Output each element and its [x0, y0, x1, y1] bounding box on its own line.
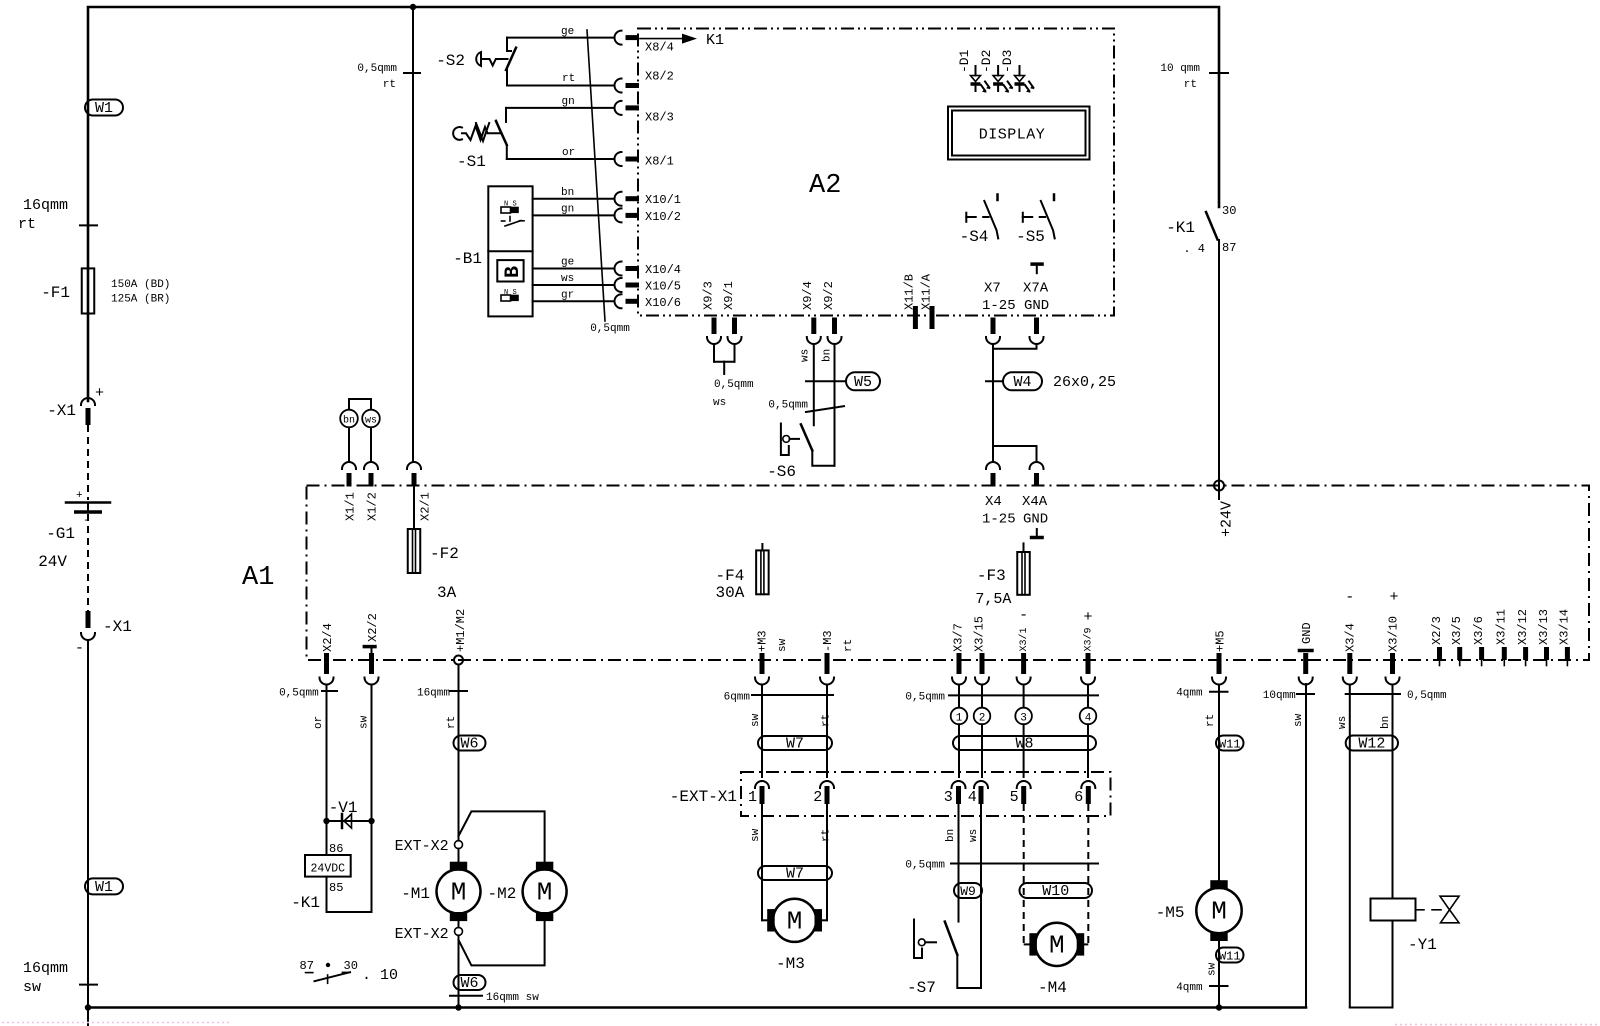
connector X10/6: [615, 294, 622, 308]
svg-text:-M2: -M2: [488, 885, 517, 903]
svg-text:gn: gn: [561, 204, 574, 216]
svg-text:rt: rt: [1184, 79, 1197, 91]
svg-text:W8: W8: [1015, 736, 1033, 753]
EXT-X1 pin 2: [820, 781, 834, 788]
wire gn B1-X10/2: [533, 214, 615, 216]
wire bn X3/10 drop: [1392, 685, 1394, 899]
cable W4 marker 26x0,25: [986, 380, 1003, 382]
connector X2/2: [363, 645, 377, 649]
svg-text:W7: W7: [786, 866, 804, 883]
svg-text:-D3: -D3: [1000, 50, 1015, 73]
wire gr B1-X10/6: [533, 300, 615, 302]
svg-text:X10/2: X10/2: [645, 210, 681, 224]
svg-text:-S5: -S5: [1016, 228, 1045, 246]
connector X7 pins: [991, 318, 996, 335]
svg-text:1: 1: [956, 713, 963, 725]
cable W5 marker: [806, 380, 846, 382]
svg-text:W5: W5: [854, 374, 872, 391]
wire ws (pin4 down): [980, 804, 982, 988]
cable W11 (lower): [1216, 948, 1244, 963]
connector X11/A pin: [930, 306, 935, 329]
wire or S1-X8/1: [507, 158, 615, 160]
wire K1 to +24V node: [1218, 240, 1220, 499]
connector X1/1: [342, 462, 356, 469]
connector X9/3: [712, 318, 717, 335]
cable W7 (upper): [758, 736, 832, 750]
wire X3/9 drop: [1087, 685, 1089, 709]
svg-text:-: -: [1345, 589, 1354, 606]
wire ws X9/4: [813, 344, 815, 425]
connector X3/14 pin: [1565, 647, 1570, 660]
fuse F4 30A: [761, 544, 763, 550]
connector X8/3: [615, 101, 622, 115]
svg-text:24VDC: 24VDC: [311, 863, 346, 876]
wire bn X9/2: [834, 344, 836, 466]
fuse F1: [82, 268, 95, 313]
svg-text:7,5A: 7,5A: [975, 591, 1011, 608]
svg-text:gr: gr: [561, 290, 574, 302]
svg-text:-X1: -X1: [103, 618, 132, 636]
svg-text:bn: bn: [1380, 716, 1392, 729]
svg-text:-D1: -D1: [957, 49, 972, 73]
wire ws X3/4 drop: [1349, 685, 1351, 1008]
svg-text:X3/9: X3/9: [1082, 627, 1094, 651]
svg-text:A2: A2: [809, 171, 841, 201]
svg-text:X4A: X4A: [1022, 494, 1048, 510]
svg-text:16qmm: 16qmm: [417, 688, 450, 700]
svg-text:sw: sw: [1207, 962, 1219, 976]
svg-text:X11/A: X11/A: [919, 273, 933, 310]
svg-text:X2/1: X2/1: [418, 492, 432, 521]
switch S6: [781, 424, 789, 456]
core mark 3: [1015, 708, 1032, 725]
svg-text:+: +: [76, 490, 83, 502]
svg-text:W6: W6: [460, 736, 478, 753]
svg-text:6qmm: 6qmm: [724, 692, 751, 704]
svg-text:X3/5: X3/5: [1450, 616, 1464, 645]
wire X3/1 drop: [1023, 685, 1025, 709]
svg-text:rt: rt: [843, 639, 855, 652]
core mark 1: [951, 708, 968, 725]
svg-text:-F3: -F3: [977, 567, 1006, 585]
svg-text:X10/6: X10/6: [645, 296, 681, 310]
connector X3/12 pin: [1523, 647, 1528, 660]
svg-text:4: 4: [1085, 713, 1092, 725]
svg-text:-S4: -S4: [960, 228, 989, 246]
svg-text:rt: rt: [446, 716, 458, 729]
svg-text:X10/5: X10/5: [645, 280, 681, 294]
svg-text:A1: A1: [242, 563, 274, 593]
svg-text:-Y1: -Y1: [1408, 936, 1437, 954]
solenoid Y1: [1371, 899, 1416, 921]
wire X4/X4A split: [993, 446, 1037, 462]
svg-text:-F2: -F2: [430, 545, 459, 563]
arrow K1 output: [640, 38, 688, 40]
svg-text:X3/15: X3/15: [972, 616, 986, 652]
svg-text:gn: gn: [562, 96, 575, 108]
EXT-X1 pin 1: [755, 781, 769, 788]
svg-text:sw: sw: [750, 713, 762, 727]
fuse F2 3A: [413, 487, 415, 530]
svg-text:24V: 24V: [38, 553, 67, 571]
svg-text:X2/3: X2/3: [1430, 616, 1444, 645]
svg-text:85: 85: [329, 881, 343, 895]
svg-text:1-25: 1-25: [982, 298, 1016, 314]
connector X3/13 pin: [1544, 647, 1549, 660]
svg-text:bn: bn: [343, 415, 355, 427]
svg-text:ws: ws: [365, 416, 377, 427]
wire M5 to bus: [1218, 939, 1220, 1008]
svg-text:. 10: . 10: [362, 967, 398, 984]
svg-text:4qmm: 4qmm: [1176, 982, 1203, 994]
svg-text:X2/2: X2/2: [366, 613, 380, 642]
svg-text:. 4: . 4: [1183, 242, 1205, 256]
connector X9/2: [832, 318, 837, 335]
wire dashed (pin6 down): [1087, 804, 1089, 944]
wire bottom ground bus: [88, 1006, 1306, 1009]
svg-text:X8/1: X8/1: [645, 155, 674, 169]
svg-text:3: 3: [1020, 713, 1027, 725]
svg-text:30: 30: [1222, 204, 1236, 218]
wire S2/X2-1 drop: [412, 7, 414, 462]
svg-text:W10: W10: [1042, 883, 1069, 900]
svg-text:5: 5: [1010, 789, 1019, 806]
svg-text:bn: bn: [561, 187, 574, 199]
svg-text:3A: 3A: [437, 584, 457, 602]
cable W8: [953, 736, 1096, 750]
svg-text:M: M: [787, 906, 803, 936]
svg-text:10 qmm: 10 qmm: [1160, 63, 1200, 75]
wire label 16qmm sw: [450, 995, 482, 997]
connector X3/15: [980, 653, 985, 674]
paper artifact dots: [2, 1022, 230, 1024]
ground X4A GND symbol: [1036, 529, 1038, 537]
svg-text:0,5qmm: 0,5qmm: [1407, 690, 1447, 702]
svg-text:0,5qmm: 0,5qmm: [279, 688, 319, 700]
display module: [948, 107, 1090, 160]
connector X3/1 (-): [1021, 653, 1026, 674]
wire sw X2/2 drop: [371, 685, 373, 913]
svg-text:16qmm: 16qmm: [23, 197, 68, 214]
svg-text:4: 4: [968, 789, 977, 806]
svg-text:ws: ws: [800, 349, 812, 362]
svg-text:X1/2: X1/2: [365, 492, 379, 521]
svg-text:W4: W4: [1013, 374, 1031, 391]
wire gn S1-X8/3: [506, 107, 615, 109]
svg-text:X8/4: X8/4: [645, 41, 674, 55]
svg-text:X7A: X7A: [1023, 281, 1049, 297]
svg-text:W1: W1: [95, 100, 113, 117]
wire bn/ws jumper to X1: [348, 427, 350, 462]
svg-text:X3/1: X3/1: [1018, 627, 1030, 651]
svg-text:W6: W6: [460, 975, 478, 992]
svg-text:-G1: -G1: [46, 525, 75, 543]
svg-text:X3/14: X3/14: [1558, 609, 1572, 645]
wire dashed to battery: [87, 425, 89, 500]
connector X10/2: [615, 208, 622, 222]
wire K1 coil bottom: [327, 877, 372, 912]
connector X8/4: [615, 31, 622, 45]
EXT-X1 pin 5: [1017, 781, 1031, 788]
connector X7A pins: [1034, 318, 1039, 335]
core mark 2: [974, 708, 991, 725]
wire ge B1-X10/4: [533, 268, 615, 270]
wire branch to M2 (lower): [459, 921, 545, 965]
wire rt S2-X8/2: [507, 85, 615, 87]
svg-text:-: -: [75, 640, 84, 657]
wire branch to M2 (upper): [459, 811, 545, 861]
svg-text:-B1: -B1: [453, 250, 482, 268]
svg-text:W12: W12: [1358, 736, 1385, 753]
svg-text:EXT-X2: EXT-X2: [395, 926, 449, 943]
connector X3/5 pin: [1457, 647, 1462, 660]
svg-text:ge: ge: [561, 26, 574, 38]
svg-text:-M4: -M4: [1038, 979, 1067, 997]
cable tick 0,5qmm (Y1): [1346, 693, 1400, 695]
connector X10/1: [615, 192, 622, 206]
svg-text:EXT-X2: EXT-X2: [395, 838, 449, 855]
wire dashed (pin5 down): [1023, 804, 1025, 944]
svg-text:-S1: -S1: [457, 153, 486, 171]
cable W10: [1020, 883, 1093, 898]
wire M1 to ground bus: [458, 935, 460, 1007]
wire sw M3 (below EXT-X1): [761, 804, 763, 920]
svg-text:+24V: +24V: [1218, 501, 1235, 537]
wire dashed battery minus: [87, 514, 89, 611]
svg-text:M: M: [1211, 897, 1227, 927]
svg-text:X3/7: X3/7: [951, 623, 965, 652]
connector X2/3 pin: [1437, 647, 1442, 660]
core mark 4: [1080, 708, 1097, 725]
wire Y1 to bottom loop: [1350, 921, 1393, 1008]
svg-text:W1: W1: [95, 879, 113, 896]
connector X8/2: [615, 79, 622, 93]
svg-text:16qmm: 16qmm: [23, 960, 68, 977]
svg-text:1-25: 1-25: [982, 512, 1016, 528]
svg-text:or: or: [562, 147, 575, 159]
svg-text:sw: sw: [359, 715, 371, 729]
cable line 0,5qmm (slanted): [587, 30, 605, 321]
connector X8/1: [615, 152, 622, 166]
svg-text:rt: rt: [383, 79, 396, 91]
svg-text:125A (BR): 125A (BR): [111, 294, 170, 306]
wire rt M3 (below EXT-X1): [826, 804, 828, 920]
svg-text:30: 30: [344, 959, 358, 973]
terminal X7A symbol: [1030, 262, 1043, 266]
svg-text:ws: ws: [1337, 716, 1349, 729]
svg-text:GND: GND: [1023, 512, 1048, 528]
svg-text:+M1/M2: +M1/M2: [454, 609, 468, 652]
connector X9/4: [811, 318, 816, 335]
svg-text:B: B: [502, 266, 525, 278]
node bottom bus left: [85, 1004, 91, 1010]
connector X4A: [1030, 462, 1044, 469]
svg-text:or: or: [313, 716, 325, 729]
node +M1/M2 on A1 edge: [454, 656, 463, 665]
terminal strip EXT-X1 box: [741, 772, 1111, 816]
svg-text:X1/1: X1/1: [343, 492, 357, 521]
node M5 ground: [1216, 1004, 1222, 1010]
svg-text:W11: W11: [1219, 738, 1241, 752]
svg-text:+M3: +M3: [756, 630, 770, 652]
svg-text:0,5qmm: 0,5qmm: [768, 400, 808, 412]
cable W7 (lower): [758, 866, 832, 880]
connector X3/7: [957, 653, 962, 674]
controller A2 box: [638, 29, 1114, 316]
connector X3/4 (-): [1347, 653, 1352, 674]
connector X4: [986, 462, 1000, 469]
B1 buzzer symbol: [497, 260, 523, 281]
connector X3/9 (+): [1086, 653, 1091, 674]
svg-text:X8/2: X8/2: [645, 70, 674, 84]
node +24V at A1 edge: [1214, 481, 1224, 491]
svg-text:-D2: -D2: [979, 50, 994, 73]
connector +M3: [760, 653, 765, 674]
connector X2/4: [324, 653, 329, 674]
switch -S5: [1022, 213, 1024, 222]
svg-text:2: 2: [813, 789, 822, 806]
svg-text:-M3: -M3: [776, 955, 805, 973]
cable W12: [1346, 736, 1398, 751]
svg-text:0,5qmm: 0,5qmm: [905, 692, 945, 704]
svg-text:2: 2: [979, 713, 986, 725]
svg-text:3: 3: [944, 789, 953, 806]
svg-text:M: M: [1049, 930, 1065, 960]
connector X1/2: [364, 462, 378, 469]
connector X3/11 pin: [1502, 647, 1507, 660]
svg-text:X7: X7: [984, 281, 1001, 297]
svg-text:rt: rt: [820, 714, 832, 727]
svg-text:X3/6: X3/6: [1472, 616, 1486, 645]
svg-text:+: +: [1389, 589, 1398, 606]
connector -M3: [825, 653, 830, 674]
switch -S4: [965, 213, 967, 222]
svg-text:-M5: -M5: [1156, 904, 1185, 922]
svg-text:W9: W9: [960, 884, 976, 899]
fuse F3 7,5A: [1023, 543, 1025, 552]
wire left ground rail: [87, 640, 89, 1026]
svg-text:0,5qmm: 0,5qmm: [905, 860, 945, 872]
svg-text:ws: ws: [561, 273, 574, 285]
svg-text:sw: sw: [777, 638, 789, 652]
motor M3: [762, 919, 767, 921]
LED diode symbol: [975, 66, 977, 76]
svg-text:-F1: -F1: [41, 284, 70, 302]
svg-text:DISPLAY: DISPLAY: [979, 127, 1046, 144]
connector X11/B pin: [913, 306, 918, 329]
wire bn B1-X10/1: [533, 198, 615, 200]
svg-text:X4: X4: [985, 494, 1002, 510]
EXT-X1 pin 4: [974, 781, 988, 788]
svg-text:-K1: -K1: [1166, 219, 1195, 237]
svg-text:-S6: -S6: [767, 463, 796, 481]
svg-text:26x0,25: 26x0,25: [1053, 374, 1116, 391]
svg-text:GND: GND: [1024, 298, 1049, 314]
wire top +24V bus: [88, 7, 1219, 401]
wire ge S2-X8/4: [507, 37, 615, 39]
connector GND: [1298, 649, 1314, 653]
svg-text:sw: sw: [750, 828, 762, 842]
cable W9: [954, 883, 982, 898]
svg-text:87: 87: [300, 959, 314, 973]
svg-text:-S2: -S2: [436, 52, 465, 70]
wire X7 drop: [993, 344, 1037, 349]
B1 reed contact symbol: [502, 220, 505, 222]
cable W6 (bottom): [454, 975, 486, 990]
svg-text:86: 86: [329, 842, 343, 856]
node M1 ground: [455, 1004, 461, 1010]
svg-text:30A: 30A: [715, 584, 744, 602]
EXT-X1 pin 6: [1081, 781, 1095, 788]
svg-text:X9/1: X9/1: [722, 281, 736, 310]
svg-text:0,5qmm: 0,5qmm: [357, 63, 397, 75]
svg-text:rt: rt: [1205, 714, 1217, 727]
sensor B1 box: [488, 186, 532, 316]
svg-text:rt: rt: [18, 216, 36, 233]
svg-text:0,5qmm: 0,5qmm: [714, 379, 754, 391]
cable W11 (upper): [1216, 736, 1244, 751]
svg-text:6: 6: [1074, 789, 1083, 806]
connector +M5: [1217, 653, 1222, 674]
svg-text:sw: sw: [1293, 713, 1305, 727]
svg-text:X9/4: X9/4: [801, 281, 815, 310]
svg-text:-S7: -S7: [907, 979, 936, 997]
connector X1 (+) top: [81, 398, 95, 405]
svg-text:GND: GND: [1300, 622, 1314, 644]
svg-text:150A (BD): 150A (BD): [111, 279, 170, 291]
wire tag bn circle: [340, 410, 358, 428]
battery G1 24V: [66, 501, 110, 504]
svg-text:1: 1: [748, 789, 757, 806]
connector X3/10 (+): [1390, 653, 1395, 674]
connector X10/5: [615, 278, 622, 292]
wire rt -M3 drop: [826, 685, 828, 778]
cable W6 (top): [454, 736, 486, 751]
svg-text:-F4: -F4: [715, 567, 744, 585]
svg-text:ws: ws: [968, 829, 980, 842]
wire X3/7 drop: [958, 685, 960, 709]
svg-text:X9/3: X9/3: [701, 281, 715, 310]
svg-text:+: +: [1083, 609, 1092, 626]
svg-text:4qmm: 4qmm: [1176, 688, 1203, 700]
LED diode symbol: [1019, 66, 1021, 76]
svg-text:X3/10: X3/10: [1386, 616, 1400, 652]
svg-text:X10/4: X10/4: [645, 263, 681, 277]
svg-text:X11/B: X11/B: [903, 274, 917, 310]
svg-text:16qmm sw: 16qmm sw: [486, 992, 539, 1004]
svg-text:X10/1: X10/1: [645, 193, 681, 207]
svg-text:0,5qmm: 0,5qmm: [590, 323, 630, 335]
svg-text:-X1: -X1: [47, 402, 76, 420]
svg-text:X2/4: X2/4: [321, 623, 335, 652]
svg-text:K1: K1: [706, 32, 724, 49]
svg-text:87: 87: [1222, 241, 1236, 255]
connector X2/1: [407, 462, 421, 469]
connector X10/4: [615, 262, 622, 276]
svg-text:X3/11: X3/11: [1495, 609, 1509, 645]
svg-text:+M5: +M5: [1213, 630, 1227, 652]
svg-text:+: +: [95, 385, 104, 402]
svg-text:bn: bn: [821, 349, 833, 362]
svg-text:X8/3: X8/3: [645, 111, 674, 125]
svg-text:X3/12: X3/12: [1516, 609, 1530, 645]
svg-text:bn: bn: [945, 829, 957, 842]
svg-text:W7: W7: [786, 736, 804, 753]
wire X3/15 drop: [981, 685, 983, 709]
svg-text:-: -: [1019, 607, 1028, 624]
svg-text:rt: rt: [562, 73, 575, 85]
wire X9/3-X9/1 stub pair: [713, 344, 715, 362]
